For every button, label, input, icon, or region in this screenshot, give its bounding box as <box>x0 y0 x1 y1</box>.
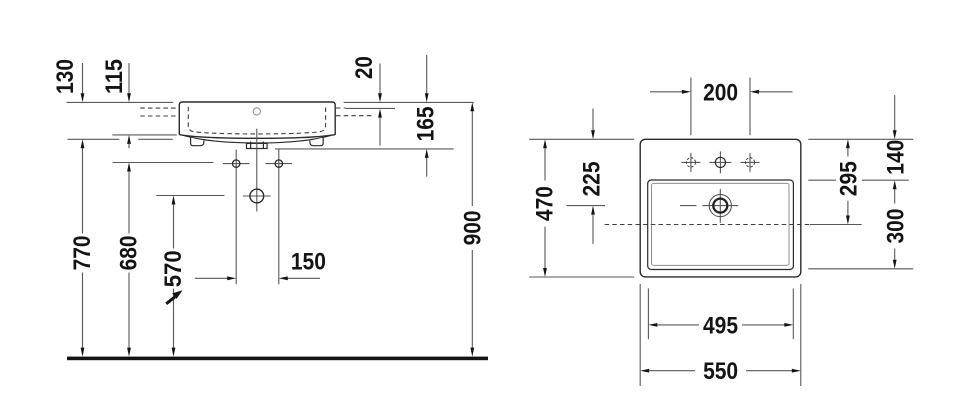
hidden centerline dashed <box>605 224 810 226</box>
dim 570 up arrow <box>172 196 176 249</box>
dim 150 left segment with arrow <box>195 276 236 280</box>
right faucet hole <box>741 153 760 172</box>
dim 770 line lower part with down arrow <box>81 273 85 357</box>
dim 225 lower external up arrow <box>591 206 595 244</box>
fixing hole reference line <box>113 162 214 164</box>
svg-text:680: 680 <box>116 235 143 270</box>
dim 300 up arrow <box>893 180 897 203</box>
reference line at 130 below rim (left segment) <box>68 138 120 140</box>
drain hole top view <box>702 189 738 223</box>
dim 165 leader with down arrow <box>425 55 429 102</box>
dim 550 left extension line <box>639 284 641 386</box>
dim 680 up arrow at fixing hole line <box>127 163 131 234</box>
left foot <box>191 138 204 146</box>
top view top-right extension line <box>808 138 913 140</box>
drain trap flange <box>247 142 268 149</box>
dim 495 left extension line <box>647 289 649 340</box>
drain centerline <box>256 129 258 212</box>
svg-text:140: 140 <box>883 140 910 175</box>
left faucet hole <box>681 153 700 172</box>
center faucet hole <box>709 151 731 173</box>
dim 200 left extension line <box>690 78 692 136</box>
svg-text:150: 150 <box>291 249 326 276</box>
dim 470 line with arrows <box>543 139 547 277</box>
drain reference line left segment <box>566 205 605 207</box>
dim 295 line with arrows <box>846 139 850 224</box>
dim 140 leader with down arrow <box>893 95 897 139</box>
top view top-left extension line <box>529 138 634 140</box>
svg-text:165: 165 <box>413 106 440 141</box>
hidden rim line upper left <box>140 107 176 109</box>
dim 495 right extension line <box>792 289 794 340</box>
hidden bowl outline <box>188 107 325 134</box>
top view bottom-left extension line <box>529 276 634 278</box>
top view bowl outer edge <box>648 180 794 270</box>
svg-text:130: 130 <box>52 59 79 94</box>
dim 900 line with arrows <box>470 102 474 356</box>
rim reference line left segment <box>67 101 174 103</box>
dim 300 down arrow <box>893 249 897 269</box>
svg-text:550: 550 <box>703 358 738 385</box>
svg-text:570: 570 <box>160 250 187 287</box>
svg-text:20: 20 <box>351 56 378 79</box>
svg-text:225: 225 <box>578 162 605 197</box>
dim 115 leader with down arrow <box>127 63 131 102</box>
dim 550 right extension line <box>800 284 802 386</box>
dim 200 right extension line <box>749 78 751 136</box>
left fixing hole <box>223 150 250 285</box>
dim 130 leader with down arrow <box>81 63 85 102</box>
hidden rim line lower right <box>336 115 372 117</box>
svg-text:900: 900 <box>460 210 487 245</box>
reference line at 115 below rim <box>112 134 176 136</box>
svg-text:300: 300 <box>883 209 910 244</box>
dim 225 leader with down arrow <box>591 109 595 140</box>
dim 20 lower external up arrow <box>378 109 382 146</box>
dim 200 right arrow <box>750 90 793 94</box>
hidden rim line lower left <box>140 115 176 117</box>
svg-text:115: 115 <box>101 59 128 94</box>
top view bowl inner edge <box>652 183 790 265</box>
svg-text:470: 470 <box>532 186 559 221</box>
hidden rim line upper right <box>336 107 346 109</box>
dim 550 line with arrows <box>640 369 801 373</box>
bowl back edge extension line right part <box>862 179 909 181</box>
drain height reference line <box>156 195 224 197</box>
svg-text:770: 770 <box>69 235 96 270</box>
washbasin bottom edge <box>179 135 335 139</box>
washbasin underside curve <box>183 135 332 143</box>
rim reference line right segment <box>344 101 474 103</box>
top view outer rim <box>640 139 801 277</box>
dim 770 up arrow <box>81 139 85 233</box>
dim 570 line lower part with down arrow <box>172 289 176 357</box>
right foot <box>310 138 323 146</box>
centerline extension right <box>810 224 862 226</box>
dim 680 line lower part with down arrow <box>127 273 131 357</box>
drain outlet front view <box>243 189 271 203</box>
overflow hole front view <box>253 108 260 115</box>
bowl back edge extension line left part <box>808 179 836 181</box>
dim 200 left arrow <box>650 90 691 94</box>
svg-text:200: 200 <box>703 80 738 107</box>
svg-text:295: 295 <box>836 161 863 196</box>
dim 20 leader with down arrow <box>378 64 382 103</box>
dim 115 lower external up arrow <box>127 135 131 148</box>
svg-text:495: 495 <box>703 313 738 340</box>
bowl front edge extension line <box>808 268 913 270</box>
dim 570 variability arrow <box>166 290 182 304</box>
floor line <box>67 357 488 361</box>
rim overhang reference line <box>346 107 395 109</box>
dim 495 line with arrows <box>648 323 793 327</box>
dim 165 lower external up arrow <box>425 149 429 177</box>
drain reference line right segment <box>680 205 697 207</box>
reference line at 130 below rim (right segment) <box>138 138 173 140</box>
siphon bottom reference line <box>275 148 454 150</box>
washbasin body front view <box>179 102 335 135</box>
right fixing hole <box>265 150 292 285</box>
dim 150 right segment with arrow <box>279 276 320 280</box>
